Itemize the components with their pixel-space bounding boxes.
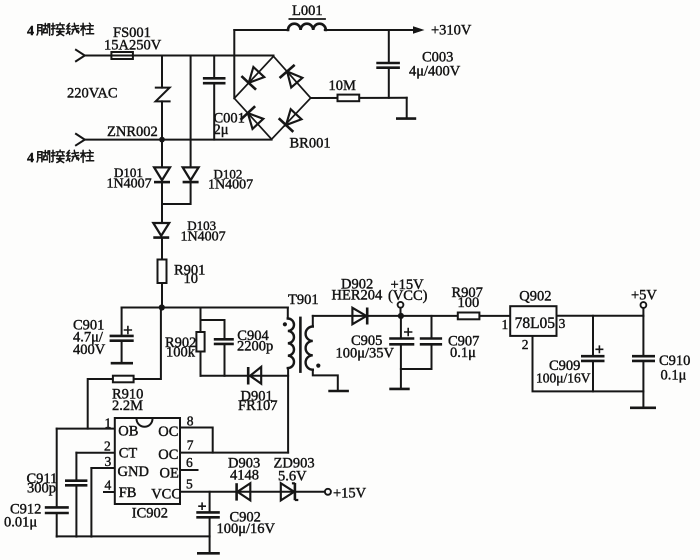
svg-text:4: 4 xyxy=(105,478,112,493)
svg-text:GND: GND xyxy=(118,464,149,480)
svg-text:5: 5 xyxy=(186,477,193,492)
svg-text:FR107: FR107 xyxy=(238,398,278,414)
svg-text:OC: OC xyxy=(158,447,178,463)
svg-text:CT: CT xyxy=(119,446,138,462)
svg-text:ZNR002: ZNR002 xyxy=(107,124,158,140)
svg-text:2.2M: 2.2M xyxy=(112,398,143,414)
svg-text:3: 3 xyxy=(559,316,566,331)
svg-text:FB: FB xyxy=(119,485,137,501)
svg-text:10: 10 xyxy=(184,271,199,287)
svg-text:7: 7 xyxy=(187,438,194,453)
svg-text:2200p: 2200p xyxy=(237,339,273,355)
svg-text:T901: T901 xyxy=(288,292,319,308)
svg-text:10M: 10M xyxy=(329,78,357,94)
svg-text:220VAC: 220VAC xyxy=(67,86,118,102)
svg-text:0.1μ: 0.1μ xyxy=(661,368,687,384)
svg-text:4148: 4148 xyxy=(230,468,259,484)
svg-text:IC902: IC902 xyxy=(132,506,168,522)
svg-text:4: 4 xyxy=(27,151,34,166)
svg-text:6: 6 xyxy=(186,455,193,470)
svg-text:2: 2 xyxy=(522,337,529,352)
svg-text:L001: L001 xyxy=(292,3,323,19)
svg-text:8: 8 xyxy=(187,414,194,429)
svg-text:0.01μ: 0.01μ xyxy=(4,515,37,531)
svg-text:4μ/400V: 4μ/400V xyxy=(409,64,461,80)
svg-text:4: 4 xyxy=(27,24,34,39)
svg-text:2: 2 xyxy=(104,439,111,454)
svg-text:1N4007: 1N4007 xyxy=(208,178,253,193)
svg-text:0.1μ: 0.1μ xyxy=(450,345,476,361)
svg-text:100k: 100k xyxy=(166,345,196,361)
svg-text:100: 100 xyxy=(458,295,480,311)
svg-text:300p: 300p xyxy=(27,481,56,497)
svg-text:Q902: Q902 xyxy=(519,289,551,305)
svg-text:BR001: BR001 xyxy=(290,136,331,152)
svg-text:1N4007: 1N4007 xyxy=(181,230,226,245)
svg-text:1: 1 xyxy=(502,317,509,332)
svg-text:+15V: +15V xyxy=(333,486,367,502)
svg-text:(VCC): (VCC) xyxy=(388,288,428,304)
svg-text:100μ/16V: 100μ/16V xyxy=(217,521,276,537)
svg-text:400V: 400V xyxy=(73,342,106,358)
svg-text:+310V: +310V xyxy=(431,23,472,39)
svg-text:1N4007: 1N4007 xyxy=(107,177,152,192)
svg-text:OE: OE xyxy=(160,465,179,481)
svg-text:3: 3 xyxy=(105,454,112,469)
svg-text:100μ/35V: 100μ/35V xyxy=(336,346,395,362)
svg-text:1: 1 xyxy=(105,416,112,431)
svg-text:OB: OB xyxy=(118,423,138,439)
svg-text:100μ/16V: 100μ/16V xyxy=(536,371,591,386)
svg-text:78L05: 78L05 xyxy=(515,315,556,332)
svg-text:+5V: +5V xyxy=(631,288,657,304)
svg-text:VCC: VCC xyxy=(151,487,181,503)
svg-text:5.6V: 5.6V xyxy=(278,469,307,485)
svg-text:HER204: HER204 xyxy=(332,288,384,304)
svg-text:OC: OC xyxy=(158,424,178,440)
svg-text:15A250V: 15A250V xyxy=(104,38,162,54)
svg-text:2μ: 2μ xyxy=(214,122,229,138)
